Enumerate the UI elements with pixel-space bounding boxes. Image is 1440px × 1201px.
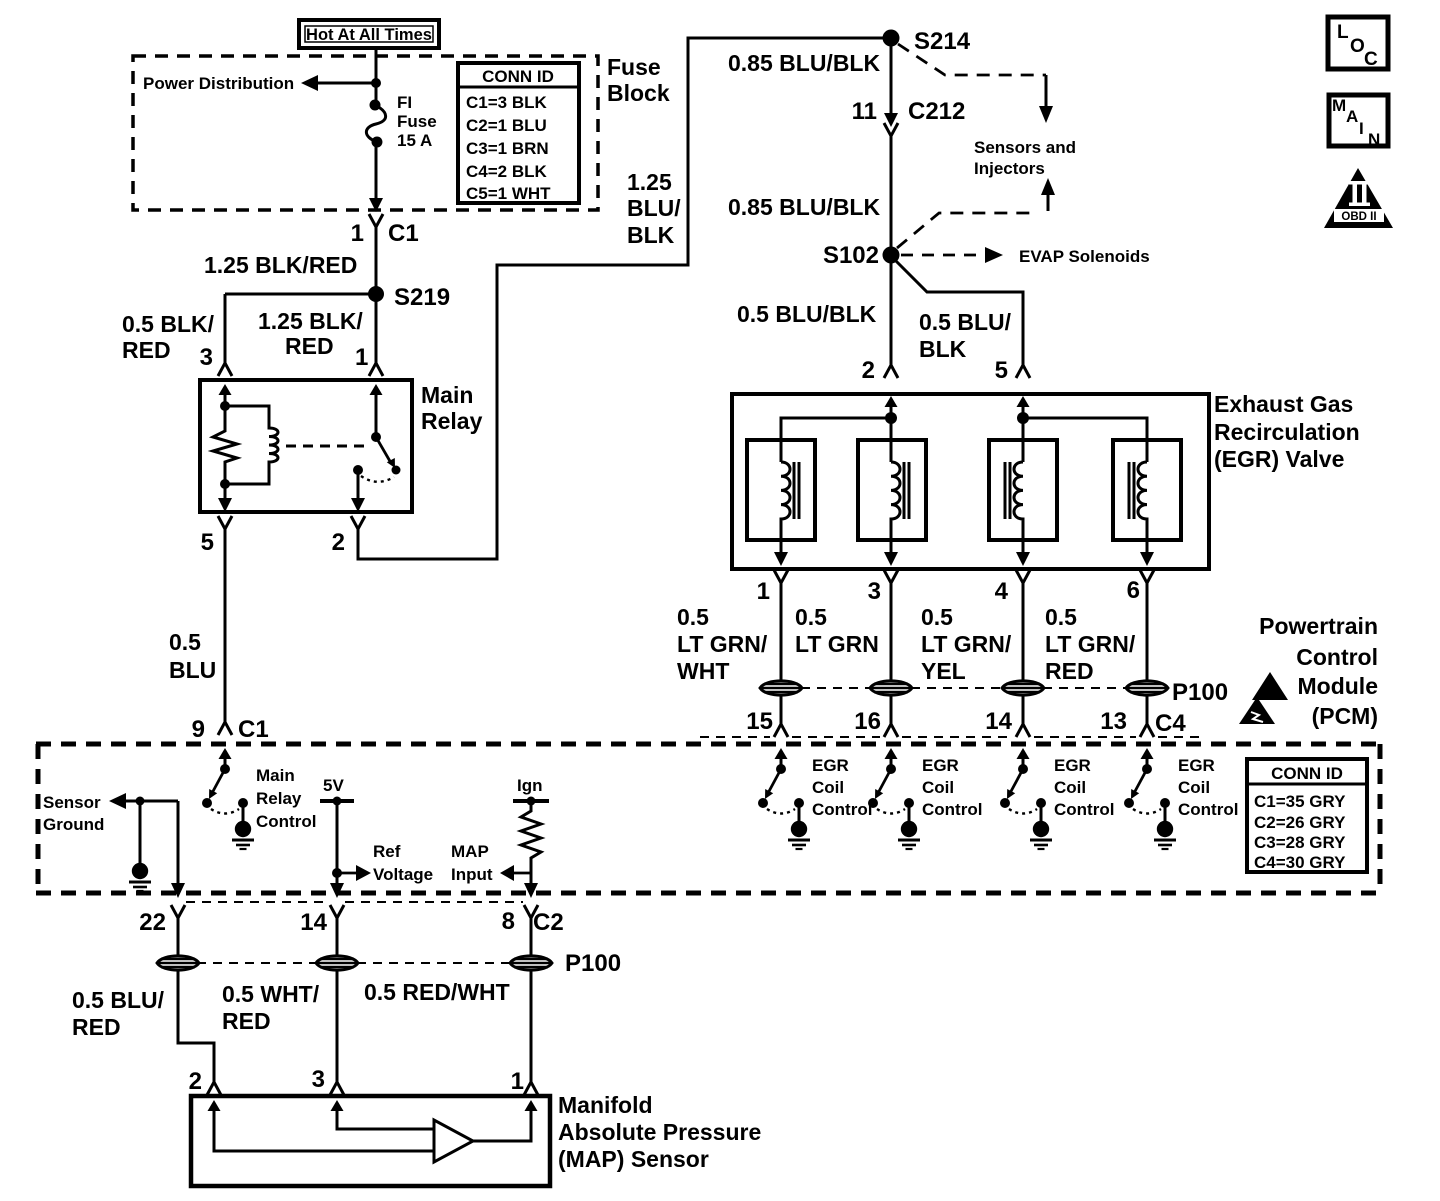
dashed branch S102 to sensors/injectors: [897, 178, 1055, 248]
wire C1 to S219: [375, 227, 378, 294]
PCM pin 14 fork: [1016, 724, 1030, 737]
sensor ground stub wire: [139, 801, 142, 864]
svg-text:1: 1: [511, 1068, 524, 1095]
relay switch common wire: [375, 394, 378, 437]
P100 dashed connector line (EGR side): [801, 687, 1127, 689]
fuse FI 15A: [366, 93, 436, 150]
P100 splice 6: [316, 956, 358, 970]
main relay control switch: [202, 764, 254, 849]
svg-text:2: 2: [189, 1068, 202, 1095]
svg-text:3: 3: [868, 578, 881, 605]
P100 splice 3: [1002, 681, 1044, 695]
svg-text:3: 3: [312, 1066, 325, 1093]
P100 splice 4: [1126, 681, 1168, 695]
EGR pin 5 fork: [1016, 365, 1030, 378]
MAP internal wire pin 2 to amp: [214, 1118, 434, 1151]
EGR pin 3 fork: [884, 570, 898, 583]
sensor ground symbol: [129, 863, 151, 891]
svg-text:P100: P100: [565, 950, 621, 977]
svg-text:1: 1: [355, 344, 368, 371]
svg-text:L: L: [1337, 22, 1349, 43]
relay coil-switch dashed link: [286, 445, 368, 448]
svg-text:O: O: [1350, 36, 1365, 57]
svg-text:MainRelay: MainRelay: [421, 382, 483, 434]
MAP pin 1 fork: [524, 1082, 538, 1095]
svg-text:8: 8: [502, 908, 515, 935]
EGR coil 3 exit arrow: [1016, 552, 1030, 566]
EGR pin 4 fork: [1016, 570, 1030, 583]
EGR coil 4: [1129, 462, 1147, 553]
svg-text:Exhaust GasRecirculation(EGR): Exhaust GasRecirculation(EGR) Valve: [1214, 391, 1360, 472]
connector C1 fuse block arrow: [369, 198, 383, 212]
Hot At All Times box: [299, 20, 439, 48]
relay pin 3 fork: [218, 363, 232, 376]
svg-text:OBD II: OBD II: [1341, 211, 1376, 223]
EGR coil 2: [891, 462, 909, 553]
wire S214 to C212: [890, 38, 893, 114]
EGR coil 4 exit arrow: [1140, 552, 1154, 566]
svg-text:S214: S214: [914, 28, 971, 55]
wire EGR pin4 to P100: [1022, 583, 1025, 680]
svg-text:C4: C4: [1155, 710, 1186, 737]
svg-text:C1: C1: [388, 220, 419, 247]
svg-text:3: 3: [200, 344, 213, 371]
svg-text:16: 16: [854, 708, 881, 735]
svg-text:6: 6: [1127, 577, 1140, 604]
svg-text:C2=26 GRY: C2=26 GRY: [1254, 813, 1346, 832]
EGR coil control switch 2: [868, 764, 920, 849]
svg-text:C3=28 GRY: C3=28 GRY: [1254, 833, 1346, 852]
relay pin 2 arrow inside: [351, 498, 365, 512]
svg-text:Ign: Ign: [517, 776, 543, 795]
MAP amp triangle: [434, 1120, 473, 1162]
svg-text:CONN ID: CONN ID: [1271, 764, 1343, 783]
P100 splice 2: [870, 681, 912, 695]
EGR coil 2 exit arrow: [884, 552, 898, 566]
PCM pin 9 fork: [218, 722, 232, 735]
MAP internal output wire: [473, 1118, 531, 1141]
sensor ground arrow: [109, 793, 178, 809]
ref voltage arrow: [337, 865, 371, 881]
P100 splice 1: [760, 681, 802, 695]
P100 splice 5: [157, 956, 199, 970]
EGR coil 3: [1005, 462, 1023, 553]
svg-text:EVAP Solenoids: EVAP Solenoids: [1019, 247, 1150, 266]
wire EGR pin1 to P100: [780, 583, 783, 680]
wire EGR pin6 to P100: [1146, 583, 1149, 680]
ESD triangle 1: [1252, 672, 1288, 700]
dashed branch S214 to sensors/injectors: [898, 44, 1053, 123]
svg-text:C: C: [1364, 49, 1378, 70]
wire P100 to PCM pin 15: [780, 696, 783, 724]
relay switch dotted arc: [361, 476, 394, 482]
node junction at fuse feed: [371, 78, 381, 88]
svg-text:0.5 RED/WHT: 0.5 RED/WHT: [364, 979, 510, 1005]
EGR coil 1 exit arrow: [774, 552, 788, 566]
MAP pin 3 fork: [330, 1082, 344, 1095]
connector C212 arrow: [884, 113, 898, 127]
svg-text:I: I: [1359, 119, 1364, 138]
wire relay pin5 to PCM pin9: [224, 529, 227, 722]
svg-text:C5=1 WHT: C5=1 WHT: [466, 184, 551, 203]
relay coil bottom node: [220, 479, 230, 489]
Main Relay box: [200, 380, 412, 512]
svg-text:P100: P100: [1172, 679, 1228, 706]
svg-text:11: 11: [852, 98, 877, 125]
PCM pin 15 arrow inside: [775, 748, 788, 767]
EGR coil 2 box: [858, 440, 926, 540]
wire S219 branch left: [225, 293, 376, 296]
PCM box dashed border: [36, 744, 1380, 893]
MAP input arrow: [500, 865, 531, 881]
wire pin8 to P100: [530, 918, 533, 955]
svg-text:1: 1: [757, 578, 770, 605]
svg-text:0.85 BLU/BLK: 0.85 BLU/BLK: [728, 194, 880, 220]
PCM pin 8 fork: [524, 905, 538, 918]
svg-text:C4=2 BLK: C4=2 BLK: [466, 162, 547, 181]
svg-text:0.85 BLU/BLK: 0.85 BLU/BLK: [728, 50, 880, 76]
PCM pin 16 arrow inside: [885, 748, 898, 767]
pin 22 arrow: [171, 883, 185, 898]
EGR coil control switch 4: [1124, 764, 1176, 849]
svg-text:22: 22: [139, 909, 166, 936]
sensor ground junction: [136, 797, 145, 806]
CONN ID table (PCM): [1247, 759, 1367, 872]
MAP internal wire pin 3 to amp: [337, 1118, 434, 1129]
splice S219: [368, 284, 450, 311]
wire P100 to MAP pin 3: [336, 971, 339, 1082]
wire S102 to EGR pin 5: [894, 259, 1023, 365]
EGR pin 6 fork: [1140, 570, 1154, 583]
PCM pin 14 arrow inside: [1017, 748, 1030, 767]
svg-text:M: M: [1332, 96, 1346, 115]
svg-text:5V: 5V: [323, 776, 344, 795]
EGR pin 2 fork: [884, 365, 898, 378]
svg-text:C4=30 GRY: C4=30 GRY: [1254, 853, 1346, 872]
PCM pin 22 fork: [171, 905, 185, 918]
svg-text:C212: C212: [908, 98, 965, 125]
svg-text:14: 14: [985, 708, 1012, 735]
svg-text:CONN ID: CONN ID: [482, 67, 554, 86]
MAP pin 3 arrow inside: [331, 1100, 344, 1119]
svg-text:4: 4: [995, 578, 1009, 605]
pin 8 arrow: [524, 883, 538, 898]
relay coil top node: [220, 401, 230, 411]
svg-text:N: N: [1368, 130, 1380, 149]
svg-text:C1=35 GRY: C1=35 GRY: [1254, 792, 1346, 811]
MAP pin 2 arrow inside: [208, 1100, 221, 1119]
C4 connector dashed line: [700, 736, 1200, 738]
relay pin 1 arrow: [370, 384, 383, 403]
EGR internal wire to coil 4: [1023, 418, 1147, 462]
MAP pin 1 arrow inside: [525, 1100, 538, 1119]
relay switch arm: [376, 437, 401, 475]
OBD II icon: [1324, 168, 1393, 228]
wire P100 to MAP pin 2: [178, 971, 214, 1082]
EGR pin 5 arrow inside: [1017, 396, 1030, 415]
connector C1 fork: [369, 214, 383, 227]
P100 dashed connector line (MAP side): [197, 962, 511, 964]
relay contact exit wire: [357, 470, 360, 499]
wire 5V to pin 14: [336, 801, 339, 884]
EGR valve box: [732, 394, 1209, 569]
svg-text:A: A: [1346, 107, 1358, 126]
svg-text:Power Distribution: Power Distribution: [143, 74, 294, 93]
P100 splice 7: [510, 956, 552, 970]
svg-text:9: 9: [192, 716, 205, 743]
pin 14 arrow: [330, 883, 344, 898]
svg-text:C3=1 BRN: C3=1 BRN: [466, 139, 549, 158]
svg-text:C2=1 BLU: C2=1 BLU: [466, 116, 547, 135]
svg-text:S219: S219: [394, 284, 450, 311]
wire P100 to PCM pin 13: [1146, 696, 1149, 724]
svg-text:C1: C1: [238, 716, 269, 743]
EGR pin 1 fork: [774, 570, 788, 583]
wire P100 to PCM pin 16: [890, 696, 893, 724]
wire P100 to MAP pin 1: [530, 971, 533, 1082]
EGR internal wire to coil 3: [1022, 418, 1025, 462]
ref voltage junction: [332, 868, 342, 878]
EGR internal wire to coil 1: [781, 418, 891, 462]
PCM pin 16 fork: [884, 724, 898, 737]
svg-text:15: 15: [746, 708, 773, 735]
wire P100 to PCM pin 14: [1022, 696, 1025, 724]
wire sensor ground to pin 22: [177, 801, 180, 884]
EGR coil 3 box: [989, 440, 1057, 540]
svg-text:C1=3 BLK: C1=3 BLK: [466, 93, 547, 112]
svg-text:2: 2: [332, 529, 345, 556]
PCM pin 9 arrow inside: [219, 748, 232, 767]
relay pin 2 fork: [351, 516, 365, 529]
EGR pin 2 arrow inside: [885, 396, 898, 415]
wire EGR pin3 to P100: [890, 583, 893, 680]
wire to relay pin 1: [375, 294, 378, 363]
relay pin 5 fork: [218, 516, 232, 529]
MAP sensor box: [191, 1096, 550, 1186]
wire pin14 to P100: [336, 918, 339, 955]
svg-text:S102: S102: [823, 242, 879, 269]
PCM pin 15 fork: [774, 724, 788, 737]
relay pin 1 fork: [369, 363, 383, 376]
PCM pin 13 fork: [1140, 724, 1154, 737]
svg-text:1.25 BLK/RED: 1.25 BLK/RED: [204, 252, 357, 278]
dashed branch S102 to EVAP solenoids: [901, 247, 1003, 263]
PCM pin 14 fork: [330, 905, 344, 918]
connector C212 fork: [884, 123, 898, 136]
svg-text:5: 5: [995, 357, 1008, 384]
EGR internal wire to coil 2: [890, 418, 893, 462]
splice S214: [883, 28, 971, 55]
relay pin 3 arrow: [219, 384, 232, 403]
5V supply bar: [320, 797, 354, 806]
EGR pin 2 node: [885, 412, 897, 424]
relay switch contact dot: [353, 465, 363, 475]
svg-text:14: 14: [300, 909, 327, 936]
relay switch pivot dot: [371, 432, 381, 442]
MAIN icon: [1329, 95, 1388, 149]
svg-text:2: 2: [862, 357, 875, 384]
EGR coil control switch 3: [1000, 764, 1052, 849]
wire relay pin2 to S214: [358, 38, 883, 559]
CONN ID table (fuse block): [458, 63, 579, 203]
wire C212 to S102: [890, 136, 893, 255]
EGR coil control switch 1: [758, 764, 810, 849]
PCM pin 13 arrow inside: [1141, 748, 1154, 767]
MAP pin 2 fork: [207, 1082, 221, 1095]
relay coil exit wire: [224, 484, 227, 499]
svg-text:0.5 BLU/BLK: 0.5 BLU/BLK: [737, 301, 877, 327]
EGR pin 5 node: [1017, 412, 1029, 424]
svg-text:C2: C2: [533, 909, 564, 936]
relay coil: [225, 406, 278, 484]
Ign supply bar: [513, 797, 549, 806]
svg-text:13: 13: [1100, 708, 1127, 735]
svg-text:5: 5: [201, 529, 214, 556]
Fuse Block dashed box: [133, 56, 598, 210]
relay pin 5 arrow inside: [218, 498, 232, 512]
wire S102 to EGR pin 2: [890, 255, 893, 365]
relay resistor: [213, 403, 237, 484]
wire hot-at-all-times feed: [375, 48, 378, 105]
Power Distribution label and arrow: [143, 74, 376, 93]
svg-text:Hot At All Times: Hot At All Times: [306, 26, 432, 44]
svg-text:FuseBlock: FuseBlock: [607, 54, 670, 106]
EGR coil 1 box: [747, 440, 815, 540]
wire pin22 to P100: [177, 918, 180, 955]
Ign pull-up resistor: [521, 801, 541, 884]
EGR coil 4 box: [1113, 440, 1181, 540]
svg-text:1: 1: [351, 220, 364, 247]
ESD triangle 2: [1239, 697, 1275, 724]
wire fuse to C1: [375, 142, 378, 199]
wire to relay pin 3: [224, 294, 227, 363]
C2 connector dashed line: [186, 901, 523, 903]
EGR coil 1: [781, 462, 799, 553]
splice S102: [823, 242, 900, 269]
LOC icon: [1328, 17, 1388, 70]
